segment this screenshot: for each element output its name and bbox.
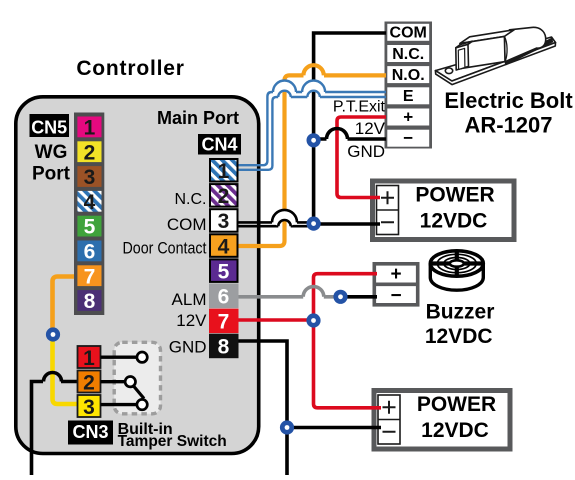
terminal TB1 row N.O. [387,66,429,84]
tamper switch dashed enclosure [114,342,160,414]
svg-text:E: E [403,88,414,105]
svg-text:3: 3 [83,396,95,419]
svg-text:COM: COM [167,215,207,234]
svg-text:8: 8 [84,290,96,313]
svg-text:8: 8 [218,336,230,359]
CN5 pin 7 [77,265,101,286]
CN4 pin 2 [210,184,238,207]
svg-text:7: 7 [84,265,96,288]
terminal TB1 row COM [387,24,429,42]
tamper switch lever [133,385,144,398]
svg-text:4: 4 [84,191,96,214]
CN4 pin 5 [210,259,238,282]
wire red vertical to buzzer plus and POWER2 plus [314,274,382,408]
wire blue ribbon CN4 pin1 to E (lower line) [236,97,386,170]
svg-text:12VDC: 12VDC [420,210,488,233]
svg-text:−: − [390,286,401,307]
wire red 12V terminal to POWER1 plus [337,117,386,198]
tamper switch wiring pin2 to contact [101,380,126,383]
connector CN5 label [30,114,70,137]
svg-text:5: 5 [218,260,230,283]
terminal TB1 row plus [387,107,429,126]
CN4 pin 3 [210,209,238,232]
tamper contact 3 [137,399,147,409]
wire black CN4 pin3 double line [236,221,314,224]
svg-text:−: − [403,129,413,148]
svg-text:3: 3 [218,210,230,233]
CN5 pin 4 [77,191,101,212]
wire black to buzzer minus [341,295,378,299]
wire black tamper pin2 [32,382,80,476]
connector CN3 label [68,421,113,445]
svg-text:1: 1 [83,347,95,370]
svg-text:AR-1207: AR-1207 [464,113,552,138]
svg-text:12V: 12V [176,311,207,330]
CN4 pin 1 [210,159,238,182]
tamper contact 1 [137,352,147,362]
power supply PS1 box [373,181,515,240]
electric bolt AR-1207 drawing [435,27,555,84]
CN5 pin 5 [77,216,101,237]
svg-text:POWER: POWER [415,184,494,207]
CN4 pin 4 [210,234,238,256]
CN5 pin 6 [77,241,101,262]
svg-text:GND: GND [347,142,385,161]
svg-text:COM: COM [390,25,427,42]
svg-text:6: 6 [218,286,230,309]
CN5 pin 3 [77,166,101,187]
svg-text:12VDC: 12VDC [425,325,493,348]
svg-text:CN4: CN4 [201,135,237,155]
svg-text:GND: GND [169,337,207,356]
svg-text:WG: WG [35,142,68,163]
svg-text:12VDC: 12VDC [421,419,489,442]
svg-text:+: + [403,107,413,126]
svg-text:+: + [390,264,401,285]
buzzer icon [430,251,483,290]
svg-text:Tamper Switch: Tamper Switch [118,433,227,450]
junction node E [46,327,60,341]
wire blue ribbon CN4 pin1 to E (upper line) [236,92,386,165]
connector CN4 label [198,134,241,155]
svg-text:Main Port: Main Port [157,108,239,128]
wire black GND row to vertical (hop over red) [314,137,386,141]
svg-text:12V: 12V [355,119,386,138]
junction node C [306,313,320,327]
svg-text:Controller: Controller [76,57,184,80]
svg-text:5: 5 [84,216,96,239]
svg-text:7: 7 [218,311,230,334]
CN3 pin 2 [78,371,101,393]
svg-text:4: 4 [218,235,230,258]
tamper contact 2 [125,377,135,387]
wire yellow to CN3 pin3 [53,334,80,404]
svg-text:ALM: ALM [172,290,207,309]
controller box [16,97,259,454]
CN5 pin 1 [77,117,101,138]
terminal TB1 row E [387,87,429,105]
junction node A [307,133,321,147]
svg-text:2: 2 [218,185,230,208]
svg-text:Door Contact: Door Contact [123,239,207,258]
wire red 12V pin7 [236,318,314,322]
CN3 pin 3 [78,395,101,417]
junction node B [307,217,321,231]
wire orange Door Contact to N.O. [236,75,386,246]
buzzer terminal block [373,264,420,307]
terminal block TB1 body [385,22,433,149]
svg-text:1: 1 [84,117,96,140]
power supply PS2 box [374,391,510,450]
CN4 pin 8 [209,334,239,359]
tamper switch wiring pin3 to contact [101,403,138,406]
terminal TB1 row N.C. [387,45,429,63]
wire black GND pin8 [236,341,381,475]
svg-text:2: 2 [83,372,95,395]
CN3 pin 1 [78,346,101,368]
wire black to POWER1 minus [314,222,380,226]
junction node F [280,420,294,434]
svg-text:Electric Bolt: Electric Bolt [444,88,573,113]
svg-text:CN5: CN5 [31,118,67,138]
svg-text:3: 3 [84,166,96,189]
wire orange CN5 pin7 [53,277,80,335]
junction node D [333,290,347,304]
svg-text:1: 1 [218,160,230,183]
CN4 pin 6 [209,284,239,309]
svg-text:Buzzer: Buzzer [426,301,495,324]
svg-text:6: 6 [84,241,96,264]
tamper switch wiring pin1 to contact [101,356,138,359]
svg-text:2: 2 [84,141,96,164]
svg-text:Port: Port [32,164,71,185]
svg-text:N.O.: N.O. [392,67,425,84]
svg-text:CN3: CN3 [72,422,108,442]
wire black COM vertical [314,33,386,224]
CN4 pin 7 [209,309,239,334]
svg-text:P.T.Exit: P.T.Exit [333,99,386,116]
svg-text:N.C.: N.C. [175,191,207,208]
svg-text:N.C.: N.C. [392,46,424,63]
CN5 pin 2 [77,141,101,162]
terminal TB1 row minus [387,129,429,148]
wire gray ALM [236,295,341,299]
CN5 pin 8 [77,290,101,311]
connector CN5 strip [74,113,104,316]
svg-text:POWER: POWER [417,393,496,416]
